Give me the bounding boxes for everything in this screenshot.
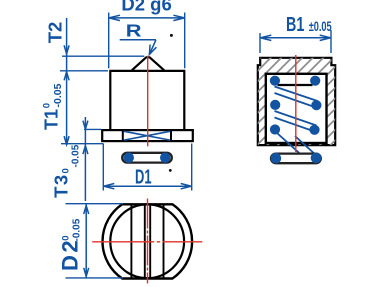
R leader arrowhead (149, 45, 156, 55)
section bottom piece (271, 154, 321, 164)
flange divider left (122, 130, 124, 142)
svg-text:0: 0 (60, 236, 71, 241)
D2 g6 extension line left (108, 13, 110, 69)
spring dot top-left (270, 76, 280, 86)
bottom view vertical centerline (147, 199, 149, 284)
D1 left arrow (104, 184, 115, 189)
svg-text:D2 g6: D2 g6 (121, 0, 171, 15)
D2 top extension line (66, 203, 124, 205)
R leader (149, 40, 156, 55)
tip cone (132, 57, 164, 70)
D2 g6 dimension line (109, 17, 185, 19)
spring band 3 lower (295, 136, 317, 156)
stadium slot piece under flange (122, 153, 172, 163)
wall hatching (160, 36, 376, 158)
B1 extension line left (259, 33, 261, 53)
slot line center-left (144, 205, 146, 279)
stadium right dot (160, 153, 170, 163)
B1 left arrow (260, 35, 271, 40)
D1 right arrow (181, 184, 192, 189)
D2 up arrow (84, 206, 89, 214)
D2 down arrow (84, 268, 89, 276)
svg-text:-0.05: -0.05 (72, 218, 83, 241)
section centerline (295, 55, 297, 152)
T2/T1 up arrow (64, 72, 69, 80)
spring band 2 lower (275, 118, 315, 132)
svg-text:D1: D1 (135, 165, 152, 188)
svg-text:R: R (126, 22, 142, 41)
T3 up arrow (83, 146, 88, 154)
svg-text:±0.05: ±0.05 (309, 18, 332, 34)
B1 right arrow (320, 35, 331, 40)
slot line far left (130, 205, 132, 279)
svg-text:T2: T2 (44, 22, 65, 44)
spring dot mid-right (311, 100, 321, 110)
outer flange circle with flats (103, 204, 193, 278)
T1 down arrow (64, 136, 69, 144)
D2 g6 left arrow (109, 15, 120, 20)
spring band 1 upper (275, 87, 318, 102)
svg-text:D2: D2 (58, 238, 83, 271)
svg-text:T1: T1 (41, 109, 61, 130)
svg-text:0: 0 (61, 168, 72, 173)
body top extension line (60, 70, 108, 72)
T3 down arrow (83, 121, 88, 129)
bottom view horizontal centerline (92, 241, 202, 243)
stadium left dot (124, 153, 134, 163)
T2/T1 dimension line vertical (66, 18, 68, 145)
body outline (109, 71, 185, 130)
flange bottom extension line (61, 143, 103, 145)
svg-text:-0.05: -0.05 (70, 144, 81, 167)
B1 dimension line (260, 37, 331, 39)
D1 extension line right (191, 144, 193, 191)
R underline (120, 39, 156, 41)
bottom piece left dot (271, 153, 282, 164)
stray dot near R (170, 34, 173, 37)
section body outline (258, 58, 335, 145)
inner body circle (110, 204, 184, 278)
svg-text:-0.05: -0.05 (52, 83, 64, 107)
flange (102, 130, 193, 141)
B1 extension line right (330, 30, 332, 53)
spring band 1 lower (275, 93, 317, 108)
flange top extension line (84, 128, 101, 130)
centerline front view (147, 56, 149, 147)
T2 down arrow (64, 45, 69, 53)
stray dot near D1 (169, 169, 172, 172)
svg-text:B1: B1 (286, 14, 304, 36)
tip apex extension line (62, 55, 144, 57)
spring band 3 upper (278, 134, 300, 153)
spring cavity (266, 74, 327, 143)
D2 dimension line vertical (85, 204, 87, 278)
spring seat bar (278, 84, 313, 86)
svg-text:T3: T3 (51, 173, 72, 198)
slot line far right (163, 205, 165, 279)
spring band 2 upper (275, 111, 317, 126)
D2 g6 extension line right (184, 13, 186, 69)
spring dot bottom-right (309, 125, 319, 135)
spring dot top-right (310, 76, 320, 86)
D2 g6 right arrow (173, 15, 184, 20)
D1 dimension line (103, 185, 191, 187)
bottom piece right dot (311, 153, 322, 164)
svg-text:0: 0 (42, 103, 53, 108)
T3 dimension line vertical (84, 117, 86, 201)
slot line center-right (149, 205, 151, 279)
D2 bottom extension line (66, 277, 124, 279)
flange divider right (170, 130, 172, 142)
D1 extension line left (102, 144, 104, 191)
spring dot bottom-left (270, 124, 280, 134)
spring dot mid-left (270, 100, 280, 110)
X cross in flange (124, 131, 170, 140)
